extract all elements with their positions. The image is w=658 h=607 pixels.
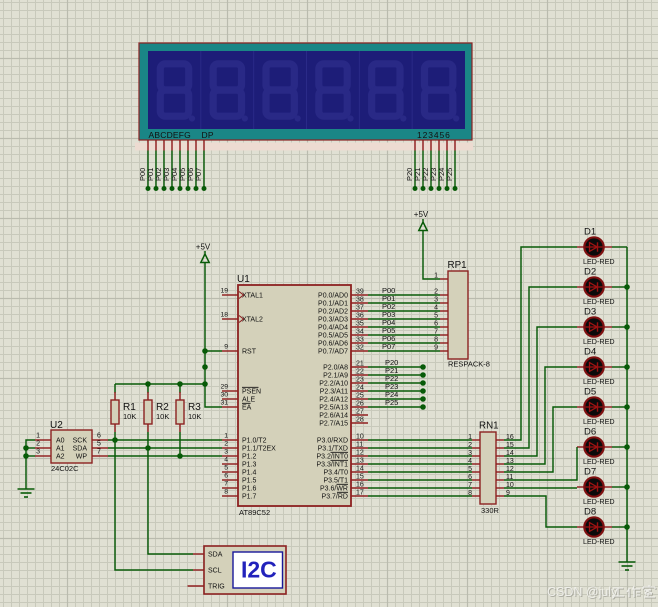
svg-text:24: 24: [356, 385, 364, 392]
svg-text:D8: D8: [584, 507, 596, 518]
svg-text:16: 16: [356, 482, 364, 489]
svg-text:P25: P25: [445, 168, 454, 181]
svg-text:P0.0/AD0: P0.0/AD0: [318, 293, 348, 300]
svg-text:1: 1: [434, 273, 438, 280]
svg-text:I2C: I2C: [241, 557, 277, 583]
svg-text:11: 11: [356, 442, 363, 449]
svg-text:LED-RED: LED-RED: [583, 337, 615, 346]
svg-text:RP1: RP1: [448, 260, 467, 271]
svg-text:P1.6: P1.6: [242, 486, 257, 493]
svg-text:10K: 10K: [188, 412, 201, 421]
svg-text:14: 14: [356, 466, 364, 473]
svg-text:P0.7/AD7: P0.7/AD7: [318, 349, 348, 356]
svg-text:P07: P07: [382, 342, 395, 351]
svg-text:8: 8: [468, 490, 472, 497]
svg-text:P1.5: P1.5: [242, 478, 257, 485]
svg-text:U2: U2: [50, 420, 63, 431]
svg-text:XTAL1: XTAL1: [242, 293, 263, 300]
svg-text:27: 27: [356, 409, 364, 416]
svg-text:P2.4/A12: P2.4/A12: [319, 397, 348, 404]
svg-text:1: 1: [224, 433, 228, 440]
svg-text:4: 4: [468, 458, 472, 465]
svg-text:XTAL2: XTAL2: [242, 317, 263, 324]
svg-text:31: 31: [220, 400, 228, 407]
svg-text:P3.7/RD: P3.7/RD: [322, 494, 348, 501]
svg-text:P25: P25: [385, 398, 398, 407]
svg-text:A1: A1: [56, 446, 65, 453]
svg-text:P1.3: P1.3: [242, 462, 257, 469]
svg-text:3: 3: [224, 449, 228, 456]
svg-text:P2.6/A14: P2.6/A14: [319, 413, 348, 420]
svg-text:29: 29: [220, 384, 228, 391]
svg-text:P2.2/A10: P2.2/A10: [319, 381, 348, 388]
svg-text:8: 8: [224, 489, 228, 496]
svg-text:LED-RED: LED-RED: [583, 457, 615, 466]
svg-text:TRIG: TRIG: [208, 584, 225, 591]
svg-text:15: 15: [356, 474, 364, 481]
svg-text:D7: D7: [584, 467, 596, 478]
svg-text:P3.3/INT1: P3.3/INT1: [316, 462, 348, 469]
svg-text:2: 2: [434, 289, 438, 296]
svg-text:U1: U1: [237, 274, 250, 285]
svg-text:PSEN: PSEN: [242, 389, 261, 396]
svg-text:D4: D4: [584, 347, 596, 358]
svg-text:SDA: SDA: [208, 552, 223, 559]
svg-text:P0.4/AD4: P0.4/AD4: [318, 325, 348, 332]
svg-text:P2.5/A13: P2.5/A13: [319, 405, 348, 412]
svg-text:RESPACK-8: RESPACK-8: [448, 360, 490, 369]
svg-text:35: 35: [356, 321, 364, 328]
svg-text:4: 4: [434, 305, 438, 312]
svg-text:D6: D6: [584, 427, 596, 438]
svg-text:6: 6: [434, 321, 438, 328]
svg-text:P0.6/AD6: P0.6/AD6: [318, 341, 348, 348]
svg-text:LED-RED: LED-RED: [583, 417, 615, 426]
svg-text:5: 5: [434, 313, 438, 320]
svg-text:10: 10: [356, 434, 364, 441]
svg-text:28: 28: [356, 417, 364, 424]
svg-text:3: 3: [36, 449, 40, 456]
svg-text:ABCDEFG: ABCDEFG: [149, 130, 192, 140]
svg-text:SCK: SCK: [73, 438, 88, 445]
svg-text:22: 22: [356, 369, 364, 376]
svg-text:P3.0/RXD: P3.0/RXD: [317, 438, 348, 445]
svg-text:D5: D5: [584, 387, 596, 398]
svg-text:WP: WP: [76, 454, 88, 461]
svg-text:39: 39: [356, 289, 364, 296]
svg-text:26: 26: [356, 401, 364, 408]
svg-text:7: 7: [97, 449, 101, 456]
svg-text:P3.5/T1: P3.5/T1: [323, 478, 348, 485]
svg-text:+5V: +5V: [414, 210, 429, 219]
svg-text:P1.2: P1.2: [242, 454, 257, 461]
svg-text:CSDN @july: CSDN @july: [547, 585, 618, 599]
svg-text:18: 18: [220, 312, 228, 319]
svg-text:P1.0/T2: P1.0/T2: [242, 438, 267, 445]
svg-text:D1: D1: [584, 227, 596, 238]
svg-text:SDA: SDA: [73, 446, 88, 453]
svg-text:8: 8: [434, 337, 438, 344]
svg-text:13: 13: [356, 458, 364, 465]
svg-text:LED-RED: LED-RED: [583, 377, 615, 386]
svg-text:32: 32: [356, 345, 364, 352]
svg-text:P1.7: P1.7: [242, 494, 257, 501]
svg-text:7: 7: [224, 481, 228, 488]
svg-text:RST: RST: [242, 349, 257, 356]
svg-text:D2: D2: [584, 267, 596, 278]
svg-text:2: 2: [224, 441, 228, 448]
svg-text:4: 4: [224, 457, 228, 464]
svg-text:9: 9: [434, 345, 438, 352]
svg-text:EA: EA: [242, 405, 252, 412]
svg-text:P3.2/INT0: P3.2/INT0: [316, 454, 348, 461]
svg-text:P3.4/T0: P3.4/T0: [323, 470, 348, 477]
svg-text:25: 25: [356, 393, 364, 400]
svg-text:RN1: RN1: [479, 421, 499, 432]
svg-text:LED-RED: LED-RED: [583, 297, 615, 306]
svg-text:7: 7: [468, 482, 472, 489]
svg-text:P0.1/AD1: P0.1/AD1: [318, 301, 348, 308]
svg-text:A0: A0: [56, 438, 65, 445]
svg-text:LED-RED: LED-RED: [583, 537, 615, 546]
svg-text:DP: DP: [202, 130, 214, 140]
svg-text:6: 6: [468, 474, 472, 481]
svg-text:1: 1: [36, 433, 40, 440]
svg-text:P3.6/WR: P3.6/WR: [320, 486, 348, 493]
svg-text:9: 9: [224, 344, 228, 351]
svg-text:P2.1/A9: P2.1/A9: [323, 373, 348, 380]
svg-text:21: 21: [356, 361, 364, 368]
svg-text:D3: D3: [584, 307, 596, 318]
svg-text:P1.1/T2EX: P1.1/T2EX: [242, 446, 276, 453]
svg-text:LED-RED: LED-RED: [583, 257, 615, 266]
svg-text:P2.3/A11: P2.3/A11: [320, 389, 348, 396]
svg-text:19: 19: [220, 288, 228, 295]
svg-text:P1.4: P1.4: [242, 470, 257, 477]
svg-text:1: 1: [468, 434, 472, 441]
svg-text:P2.0/A8: P2.0/A8: [323, 365, 348, 372]
svg-text:5: 5: [468, 466, 472, 473]
svg-text:+5V: +5V: [196, 243, 211, 252]
svg-text:P0.2/AD2: P0.2/AD2: [318, 309, 348, 316]
svg-text:LED-RED: LED-RED: [583, 497, 615, 506]
svg-text:37: 37: [356, 305, 364, 312]
svg-text:330R: 330R: [481, 506, 500, 515]
svg-text:P07: P07: [194, 168, 203, 181]
svg-text:P2.7/A15: P2.7/A15: [319, 421, 348, 428]
svg-text:5: 5: [224, 465, 228, 472]
svg-text:38: 38: [356, 297, 364, 304]
svg-text:P0.3/AD3: P0.3/AD3: [318, 317, 348, 324]
svg-text:P0.5/AD5: P0.5/AD5: [318, 333, 348, 340]
svg-text:6: 6: [97, 433, 101, 440]
svg-text:33: 33: [356, 337, 364, 344]
svg-text:10K: 10K: [123, 412, 136, 421]
svg-text:5: 5: [97, 441, 101, 448]
svg-text:123456: 123456: [417, 130, 451, 140]
svg-text:AT89C52: AT89C52: [239, 508, 270, 517]
svg-text:12: 12: [356, 450, 364, 457]
svg-text:36: 36: [356, 313, 364, 320]
svg-text:34: 34: [356, 329, 364, 336]
svg-text:17: 17: [356, 490, 364, 497]
svg-text:A2: A2: [56, 454, 65, 461]
svg-text:10K: 10K: [156, 412, 169, 421]
svg-text:30: 30: [220, 392, 228, 399]
svg-text:24C02C: 24C02C: [51, 464, 79, 473]
svg-text:P3.1/TXD: P3.1/TXD: [318, 446, 348, 453]
svg-text:2: 2: [36, 441, 40, 448]
svg-text:3: 3: [434, 297, 438, 304]
svg-text:6: 6: [224, 473, 228, 480]
svg-text:7: 7: [434, 329, 438, 336]
svg-text:3: 3: [468, 450, 472, 457]
svg-text:ALE: ALE: [242, 397, 256, 404]
svg-text:23: 23: [356, 377, 364, 384]
svg-text:SCL: SCL: [208, 568, 222, 575]
svg-text:2: 2: [468, 442, 472, 449]
